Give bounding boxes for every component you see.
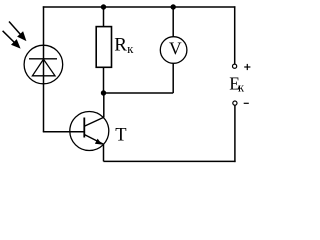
plus sign	[244, 64, 250, 70]
wire collector vertical	[103, 93, 105, 117]
transistor emitter line with arrow	[84, 135, 103, 145]
wire right lower to minus terminal	[234, 105, 236, 162]
wire mid horizontal to voltmeter	[104, 92, 174, 94]
svg-text:к: к	[127, 41, 134, 56]
wire base horizontal	[43, 131, 85, 133]
wire voltmeter top	[172, 7, 174, 37]
minus sign	[244, 102, 249, 104]
label Ek	[229, 74, 245, 95]
voltmeter V circle	[160, 37, 187, 64]
light arrow 1	[9, 22, 26, 42]
junction dot node collector/resistor/voltmeter	[101, 90, 106, 95]
wire voltmeter bottom	[172, 63, 174, 93]
resistor Rk box	[96, 27, 111, 68]
wire right upper to plus terminal	[234, 6, 236, 64]
photodiode cathode bar	[29, 58, 57, 60]
light arrow 2	[3, 31, 21, 49]
wire top rail	[43, 6, 236, 8]
wire left branch vertical	[43, 6, 45, 132]
transistor T circle	[70, 112, 109, 151]
junction dot node voltmeter top	[171, 4, 176, 9]
photodiode triangle	[32, 59, 55, 76]
terminal minus (open circle)	[233, 101, 237, 105]
svg-text:V: V	[169, 38, 182, 58]
wire resistor top	[103, 7, 105, 27]
wire resistor bottom	[103, 67, 105, 93]
label Rk	[114, 35, 134, 56]
transistor collector line	[84, 117, 104, 126]
terminal plus (open circle)	[233, 64, 237, 68]
junction dot node resistor top	[101, 4, 106, 9]
wire emitter vertical	[103, 144, 105, 161]
photodiode circle	[24, 45, 63, 84]
svg-text:R: R	[114, 35, 127, 56]
transistor base bar	[83, 118, 85, 138]
svg-text:к: к	[238, 81, 245, 95]
svg-text:T: T	[115, 126, 126, 146]
wire bottom rail	[104, 160, 236, 162]
